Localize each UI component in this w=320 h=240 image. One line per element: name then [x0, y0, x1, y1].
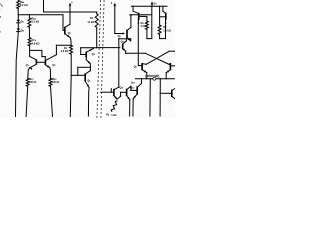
- resistor R4 240ohm: [26, 78, 36, 86]
- transistor Q8: [163, 11, 167, 38]
- svg-text:Q13: Q13: [131, 81, 135, 84]
- wire Q1 Q2 base join: [36, 61, 45, 63]
- wire rail riser Q8: [162, 6, 164, 11]
- wire Q7 base to R8 line: [139, 15, 147, 17]
- transistor Q1 diff pair left: [26, 56, 37, 70]
- svg-text:Q11: Q11: [120, 87, 124, 90]
- transistor Q4: [86, 49, 96, 60]
- wire R1 bottom to node A: [17, 9, 19, 15]
- wire Q2 emitter to R5: [49, 68, 52, 79]
- svg-text:240 Ω: 240 Ω: [52, 81, 59, 84]
- wire R8 bottom bracket: [147, 30, 152, 39]
- resistor R8 2k: [141, 21, 149, 30]
- resistor R3 4.8k: [28, 38, 39, 46]
- wire Q4 emitter diagonal down: [86, 60, 90, 64]
- wire Q11 emitter to Q12 base: [117, 96, 121, 99]
- wire bias jog vertical: [41, 50, 43, 56]
- wire Q10 emitter drop: [165, 73, 167, 79]
- wire R9 top from rail: [159, 6, 161, 25]
- junction dots: [18, 6, 167, 91]
- wire bracket riser to rail: [151, 6, 153, 38]
- resistor R10 diagonal: [106, 101, 117, 117]
- transistor Q9: [134, 63, 147, 73]
- transistor Q6: [118, 27, 131, 41]
- resistor R9 2.4k: [158, 25, 171, 34]
- wire R3 bottom down to Q1 collector node: [29, 46, 31, 57]
- rail wire y14.8: [131, 14, 152, 16]
- svg-text:3.3 kΩ: 3.3 kΩ: [31, 19, 39, 23]
- transistor Q3: [65, 12, 71, 38]
- wire Q9 emitter drop: [146, 73, 148, 79]
- wire Q13 collector to internal line: [141, 79, 143, 84]
- wire base crossing boundary: [101, 89, 114, 93]
- transistor Q12: [127, 86, 135, 100]
- transistor Q2 diff pair right: [45, 55, 56, 68]
- svg-text:(Internal): (Internal): [145, 74, 159, 78]
- wire Q12 collector to Q13 base: [131, 86, 137, 90]
- dashed boundary line right: [101, 0, 104, 118]
- terminal 5 arrow: [69, 3, 74, 12]
- wire internal line drop 2 to Q14 base: [159, 79, 161, 116]
- wire Q10 base to edge: [170, 65, 175, 67]
- wire rail riser Q7: [132, 6, 134, 11]
- wire R9 bottom bracket: [160, 34, 166, 38]
- wire node A down to R2: [28, 15, 30, 18]
- resistor R5 240ohm: [49, 78, 59, 86]
- wire Q4 collector-base loop: [81, 48, 97, 55]
- wire bias to Q2: [42, 57, 45, 61]
- wire R5 bottom down: [51, 86, 53, 116]
- wire Q6 collector riser: [130, 15, 132, 28]
- rail wire y12: [44, 11, 97, 13]
- svg-text:2.2 kΩ: 2.2 kΩ: [20, 3, 28, 7]
- svg-text:2.4 kΩ: 2.4 kΩ: [163, 29, 171, 32]
- resistor R7 6.8k: [61, 45, 73, 54]
- svg-text:2 kΩ: 2 kΩ: [141, 25, 146, 28]
- transistor Q14 at right edge: [172, 88, 175, 98]
- wire D1 to D2: [17, 23, 19, 29]
- wire Q15 emitter drop: [125, 51, 127, 53]
- wire collector node to R7 top: [56, 44, 71, 46]
- wire Q5 base feed: [71, 74, 85, 76]
- wire Q3 emitter to R7: [70, 38, 71, 46]
- transistor Q7: [129, 11, 139, 66]
- wire long riser to Q11 collector: [118, 39, 120, 87]
- wire R6 top: [96, 12, 98, 14]
- transistor Q13: [131, 81, 142, 98]
- wire Q2 collector riser: [55, 45, 57, 54]
- wire Q8 base: [160, 16, 166, 18]
- wire left rail down to bottom: [16, 32, 19, 117]
- svg-text:11 kΩ: 11 kΩ: [87, 20, 94, 24]
- wire cross feed from right edge: [169, 50, 175, 52]
- wire node A down to D1: [17, 15, 19, 20]
- resistor R2 3.3k: [28, 17, 39, 28]
- wire terminal 6 to Q6 base with signal arrow: [115, 32, 125, 34]
- resistor R1 2.2k top-left: [17, 0, 28, 8]
- diode D1: [17, 20, 25, 24]
- diode D2: [17, 29, 25, 33]
- wire Q5 emitter down to bottom: [87, 88, 90, 116]
- wire Q15 emitter to cross tee: [126, 52, 146, 54]
- transistor Q11: [114, 87, 124, 100]
- terminal internal circle: [145, 74, 159, 80]
- wire Q6 emitter drop: [119, 39, 131, 41]
- wire Q9 base: [138, 65, 142, 67]
- svg-text:↓: ↓: [0, 8, 1, 11]
- wire Q8 emitter join bracket: [165, 37, 167, 40]
- terminal 6 arrow: [111, 3, 116, 34]
- wire R7 bottom long drop to bottom edge: [69, 54, 72, 116]
- wire R2 to R3: [28, 27, 30, 37]
- wire R8 top: [146, 16, 148, 21]
- wire Q3 base drop: [63, 15, 65, 30]
- stray page marks left edge: [0, 4, 3, 34]
- wire top edge lead: [43, 0, 45, 12]
- svg-text:Q15: Q15: [121, 40, 125, 43]
- dashed boundary line left: [97, 0, 101, 118]
- svg-text:6.8 kΩ: 6.8 kΩ: [61, 50, 69, 53]
- transistor Q15: [121, 39, 127, 51]
- wire Q4 emitter vertical: [89, 64, 91, 71]
- svg-text:4.8 kΩ: 4.8 kΩ: [32, 41, 40, 45]
- top rail B+: [131, 5, 167, 7]
- wire R6 bottom to Q4 node: [96, 27, 98, 47]
- svg-text:240 Ω: 240 Ω: [29, 81, 36, 84]
- transistor Q10: [166, 63, 170, 73]
- wire Q1 emitter to R4: [28, 68, 30, 79]
- wire branch to Q5 base loop: [78, 67, 91, 75]
- wire cross A: [145, 53, 169, 64]
- wire Q12 emitter to bottom: [129, 100, 131, 116]
- resistor R6 11k: [87, 14, 98, 28]
- wire node A horizontal to Q3 base drop: [18, 14, 63, 16]
- wire Q13 emitter to bottom: [132, 99, 134, 116]
- wire Q12 base: [121, 92, 127, 96]
- wire Q14 base feed: [160, 92, 172, 94]
- terminal B+ arrow: [151, 1, 158, 6]
- svg-text:1 kΩ: 1 kΩ: [111, 114, 116, 117]
- transistor Q5: [85, 71, 90, 88]
- wire R4 bottom down: [26, 86, 28, 116]
- wire bias jog horizontal: [30, 49, 42, 51]
- node internal line: [135, 78, 175, 80]
- wire stage coupling crossing boundary: [97, 47, 120, 49]
- wire internal line drop 1: [149, 79, 151, 116]
- wire cross B: [146, 51, 169, 64]
